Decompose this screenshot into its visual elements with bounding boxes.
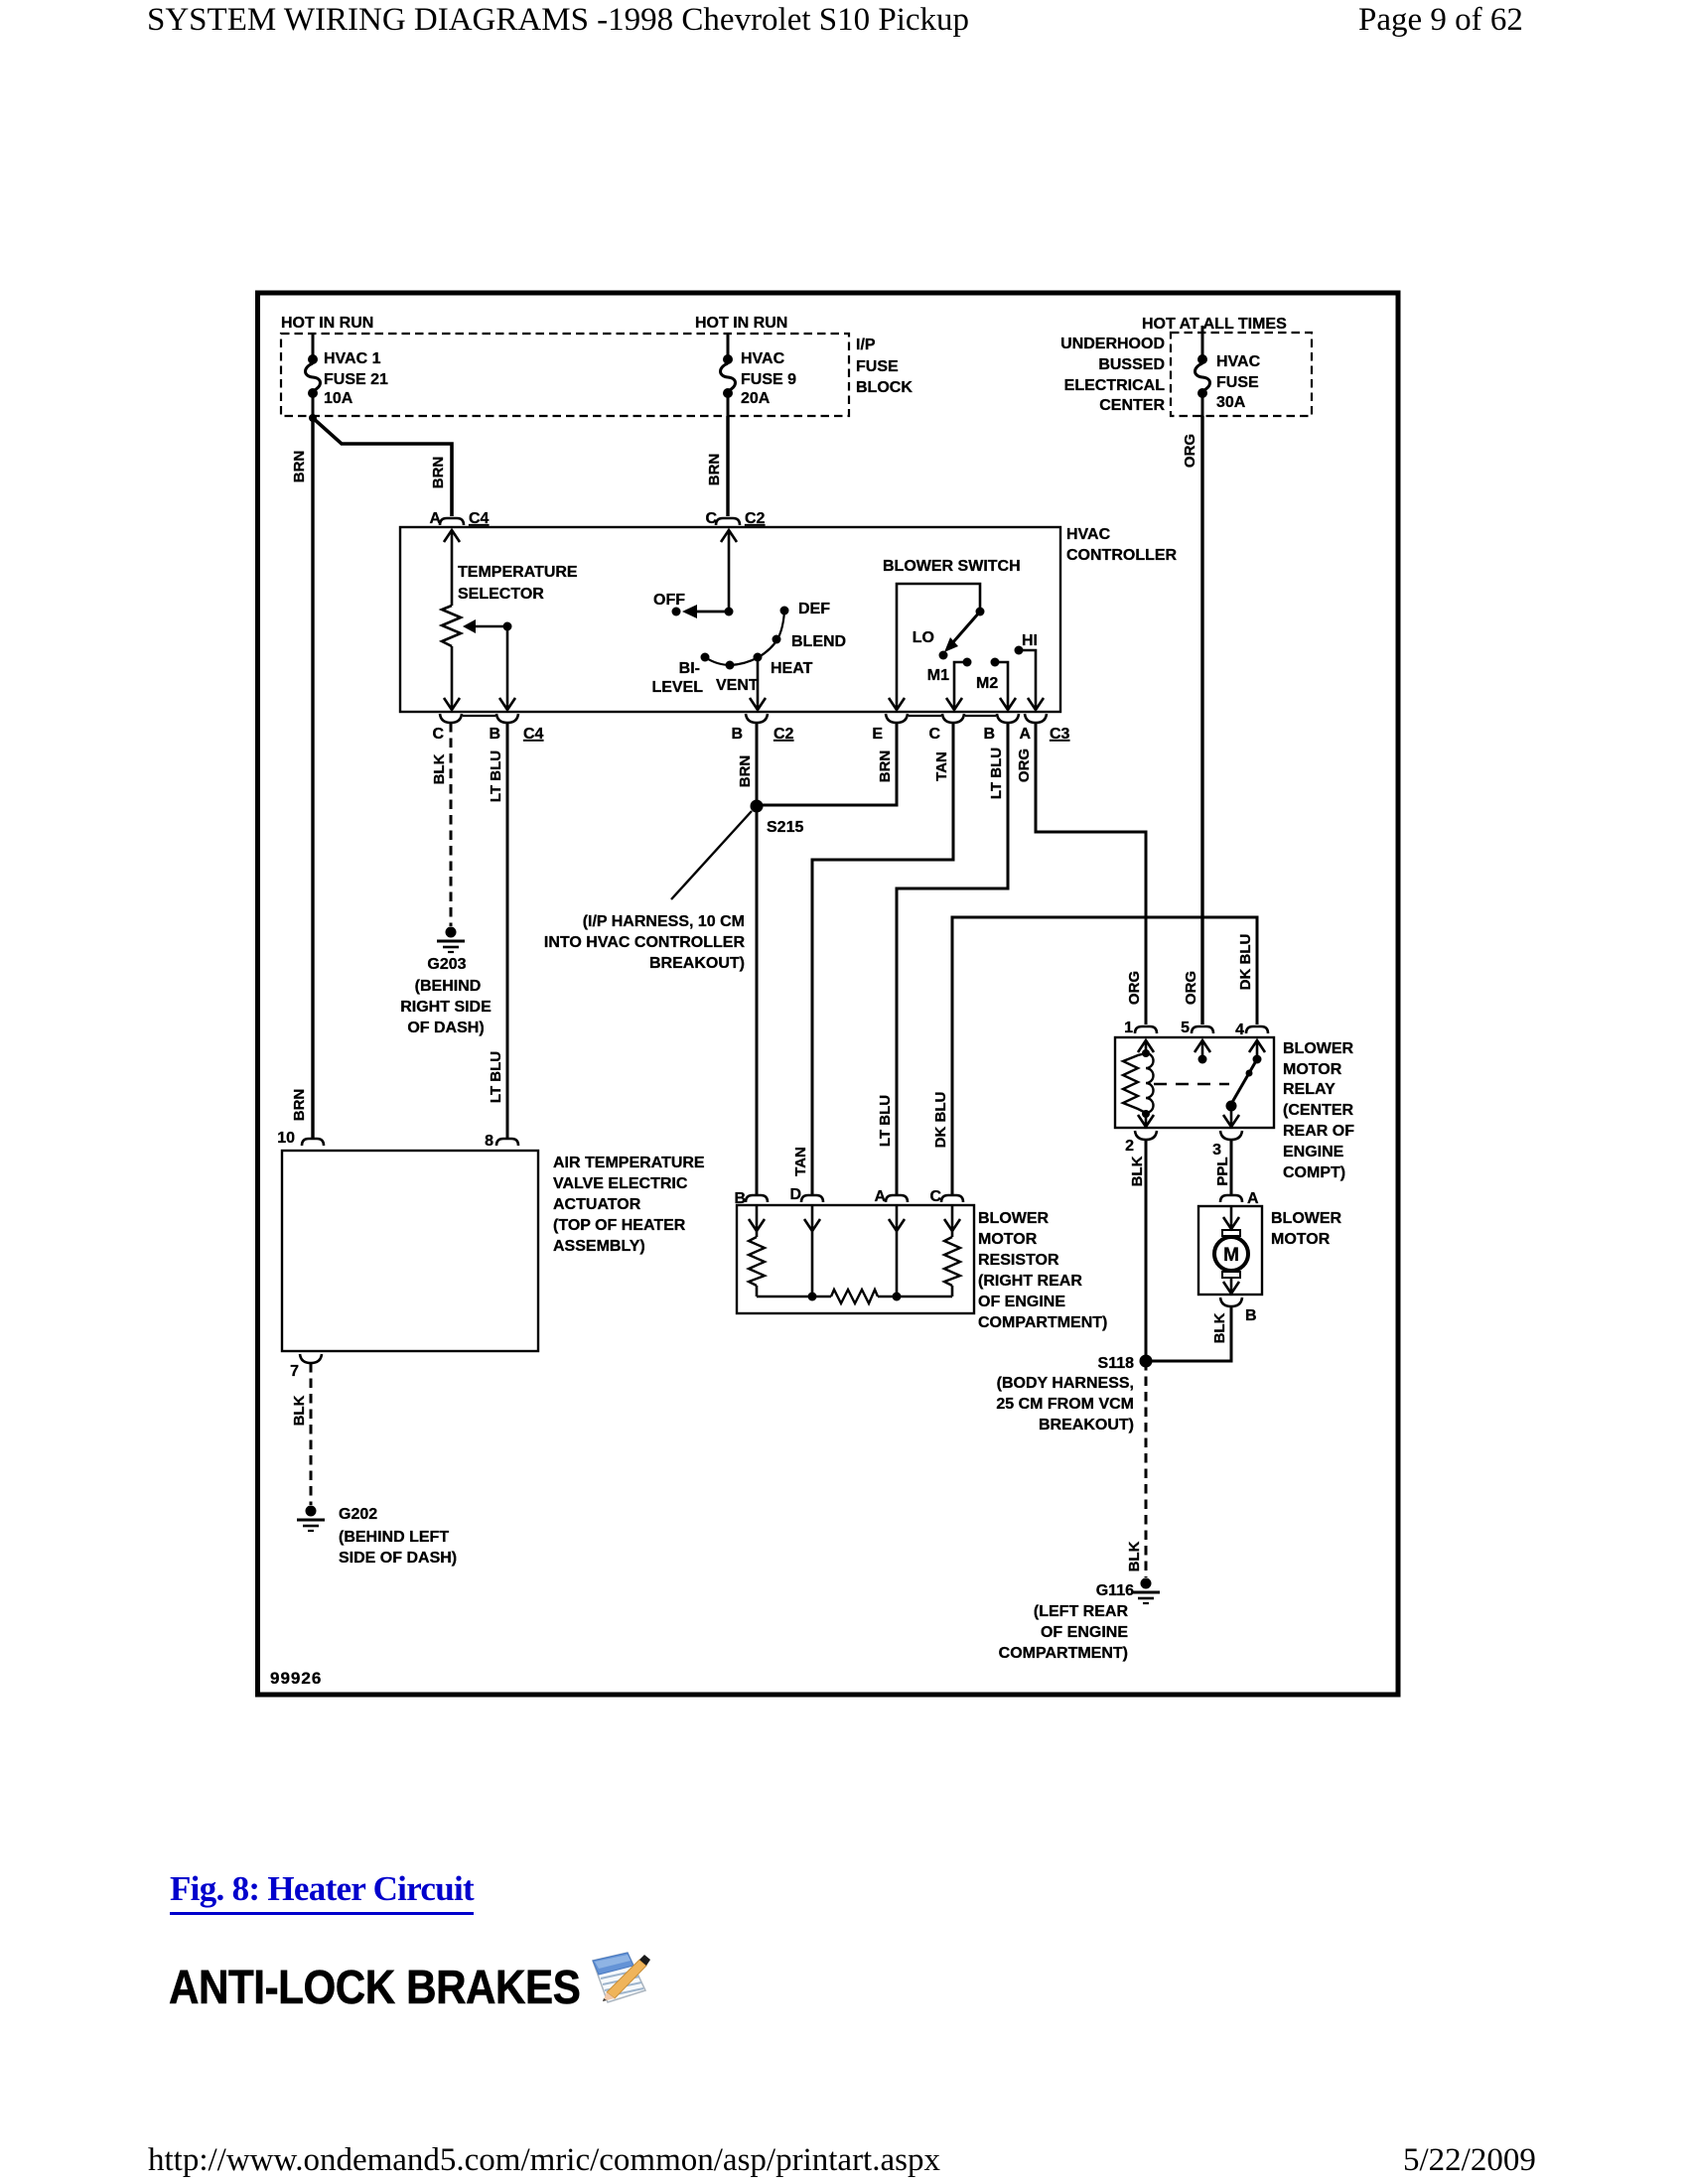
svg-text:FUSE: FUSE bbox=[856, 358, 899, 375]
label G202 (BEHIND LEFT SIDE OF DASH) bbox=[339, 1506, 457, 1567]
blower switch blade bbox=[944, 612, 980, 652]
label HOT IN RUN (left) bbox=[281, 315, 373, 332]
blower motor resistor box bbox=[737, 1205, 974, 1313]
svg-text:BRN: BRN bbox=[877, 751, 894, 783]
arrow out of box at B C3 bbox=[1000, 698, 1016, 710]
arrow into resistor at B bbox=[749, 1219, 765, 1231]
ground G202 bbox=[297, 1506, 325, 1532]
blower motor relay box bbox=[1115, 1037, 1274, 1128]
label DK BLU (relay) bbox=[1237, 934, 1254, 991]
label BLOWER MOTOR RESISTOR (RIGHT REAR OF ENGINE COMPARTMENT) bbox=[978, 1210, 1107, 1331]
label BLOWER SWITCH bbox=[883, 558, 1021, 575]
svg-text:HVAC: HVAC bbox=[1216, 353, 1261, 370]
figure caption link bbox=[170, 1869, 474, 1915]
svg-text:FUSE 9: FUSE 9 bbox=[741, 371, 796, 388]
label PPL (relay pin 3 wire) bbox=[1214, 1157, 1231, 1185]
connector pin 4 (relay) bbox=[1235, 1022, 1268, 1038]
svg-text:ELECTRICAL: ELECTRICAL bbox=[1064, 377, 1166, 394]
blower switch feed wire bbox=[897, 584, 980, 709]
wire TAN to resistor pin D bbox=[812, 723, 953, 1194]
wire PPL relay pin 3 to motor pin A bbox=[1230, 1140, 1233, 1194]
splice S118 bbox=[1098, 1355, 1153, 1373]
svg-text:5: 5 bbox=[1181, 1020, 1190, 1036]
label ORG (pin A C3 wire) bbox=[1016, 749, 1033, 782]
svg-text:LT BLU: LT BLU bbox=[988, 748, 1005, 799]
wire DK BLU relay pin 4 to resistor pin C bbox=[952, 917, 1257, 1194]
label BRN (left wire) bbox=[291, 451, 308, 483]
connector pin C C2 (controller top) bbox=[705, 510, 765, 527]
label G203 (BEHIND RIGHT SIDE OF DASH) bbox=[400, 956, 492, 1036]
label ORG (main at relay) bbox=[1183, 971, 1199, 1005]
label OFF bbox=[653, 592, 685, 609]
arrow out of relay at pin 3 bbox=[1223, 1115, 1239, 1127]
svg-text:ENGINE: ENGINE bbox=[1283, 1144, 1344, 1160]
svg-text:OF ENGINE: OF ENGINE bbox=[1041, 1624, 1128, 1641]
wire wiper to pin B bbox=[506, 626, 509, 709]
connector pin A C4 (controller top) bbox=[429, 510, 489, 527]
svg-text:(BEHIND: (BEHIND bbox=[415, 978, 482, 995]
connector tie E-C bbox=[909, 715, 941, 717]
contact HI bbox=[1015, 632, 1039, 709]
wire ORG to relay pin 1 bbox=[1036, 723, 1146, 1024]
svg-text:ORG: ORG bbox=[1016, 749, 1033, 782]
label fuse F9 bbox=[741, 350, 796, 407]
svg-text:C3: C3 bbox=[1050, 726, 1070, 743]
label HVAC CONTROLLER bbox=[1066, 526, 1178, 564]
svg-text:DK BLU: DK BLU bbox=[932, 1092, 949, 1149]
mode contact BI-LEVEL bbox=[651, 653, 709, 697]
arrow into relay at pin 1 bbox=[1138, 1040, 1154, 1052]
svg-text:C4: C4 bbox=[523, 726, 544, 743]
wire LT BLU to actuator pin 8 bbox=[506, 723, 509, 1138]
fuse HVAC 30A bbox=[1196, 326, 1210, 416]
svg-text:G116: G116 bbox=[1096, 1582, 1134, 1599]
svg-text:BLOCK: BLOCK bbox=[856, 379, 913, 396]
svg-text:BLOWER: BLOWER bbox=[1283, 1040, 1354, 1057]
svg-text:(CENTER: (CENTER bbox=[1283, 1102, 1354, 1119]
resistor bus wire bbox=[757, 1296, 952, 1298]
relay coil (parallel zigzag and loops) bbox=[1123, 1040, 1154, 1126]
svg-text:BRN: BRN bbox=[291, 451, 308, 483]
svg-text:7: 7 bbox=[290, 1363, 299, 1380]
svg-text:10: 10 bbox=[277, 1130, 295, 1147]
svg-text:2: 2 bbox=[1125, 1138, 1134, 1155]
arrow out of box at C bbox=[444, 698, 460, 710]
relay contact pin 4 bbox=[1253, 1040, 1262, 1064]
pot wiper arrow bbox=[463, 619, 512, 633]
svg-text:B: B bbox=[983, 726, 995, 743]
diagram number 99926 bbox=[270, 1669, 322, 1688]
wire HEAT to pin B C2 bbox=[757, 657, 760, 709]
svg-text:C: C bbox=[929, 1188, 941, 1205]
arrow out of box at E bbox=[889, 698, 905, 710]
svg-text:AIR TEMPERATURE: AIR TEMPERATURE bbox=[553, 1155, 705, 1171]
svg-text:OFF: OFF bbox=[653, 592, 685, 609]
arrow out of box at B C2 bbox=[750, 698, 766, 710]
label TAN (pin C C3 wire) bbox=[933, 751, 950, 781]
diagram frame bbox=[258, 293, 1399, 1695]
mode contact DEF bbox=[780, 601, 831, 617]
connector pin B C2 (controller bottom) bbox=[731, 714, 793, 743]
svg-text:BUSSED: BUSSED bbox=[1098, 356, 1165, 373]
svg-text:B: B bbox=[1245, 1307, 1257, 1324]
svg-text:30A: 30A bbox=[1216, 394, 1246, 411]
resistor element R-mid (horizontal) bbox=[831, 1290, 878, 1303]
label DK BLU (resistor) bbox=[932, 1092, 949, 1149]
svg-text:BRN: BRN bbox=[291, 1089, 308, 1122]
arrow into box at A bbox=[444, 530, 460, 542]
relay switch blade bbox=[1226, 1059, 1258, 1126]
connector tie C-B bbox=[965, 715, 996, 717]
svg-text:DK BLU: DK BLU bbox=[1237, 934, 1254, 991]
svg-text:ASSEMBLY): ASSEMBLY) bbox=[553, 1238, 645, 1255]
HVAC controller box bbox=[400, 527, 1060, 712]
connector pin A (resistor) bbox=[874, 1188, 908, 1205]
svg-text:ORG: ORG bbox=[1126, 971, 1143, 1005]
label HOT IN RUN (center) bbox=[695, 315, 787, 332]
svg-text:ORG: ORG bbox=[1182, 434, 1198, 468]
label UNDERHOOD BUSSED ELECTRICAL CENTER bbox=[1060, 336, 1165, 414]
label BLK (ground wire) bbox=[1126, 1541, 1143, 1571]
svg-text:S215: S215 bbox=[767, 819, 803, 836]
arrow into resistor at A bbox=[889, 1219, 905, 1231]
fuse F9 (HVAC, 20A) bbox=[721, 335, 736, 416]
label BODY HARNESS note bbox=[996, 1375, 1134, 1433]
wire ORG main to relay pin 5 bbox=[1200, 416, 1203, 1024]
svg-text:COMPT): COMPT) bbox=[1283, 1164, 1345, 1181]
contact M1 bbox=[927, 658, 972, 710]
wire BLK dashed S118 to G116 bbox=[1145, 1361, 1148, 1577]
svg-text:B: B bbox=[489, 726, 500, 743]
air temperature valve electric actuator box bbox=[282, 1151, 538, 1351]
wire A to potentiometer bbox=[451, 530, 454, 606]
svg-text:BLK: BLK bbox=[1129, 1156, 1146, 1186]
svg-text:PPL: PPL bbox=[1214, 1157, 1231, 1185]
svg-text:BLK: BLK bbox=[291, 1395, 308, 1426]
connector pin B (resistor) bbox=[734, 1190, 768, 1207]
svg-text:BLOWER SWITCH: BLOWER SWITCH bbox=[883, 558, 1021, 575]
svg-text:25 CM FROM VCM: 25 CM FROM VCM bbox=[996, 1396, 1134, 1413]
svg-text:E: E bbox=[872, 726, 883, 743]
label BRN (pin B C2 wire) bbox=[737, 755, 754, 788]
wire A to bus bbox=[893, 1205, 902, 1301]
svg-text:COMPARTMENT): COMPARTMENT) bbox=[999, 1645, 1128, 1662]
connector tie C4 bbox=[463, 715, 495, 717]
ground G203 bbox=[437, 927, 465, 953]
label BLK (relay pin 2 wire) bbox=[1129, 1156, 1146, 1186]
fuse F21 (HVAC 1, 10A) bbox=[306, 335, 321, 418]
connector pin C C4 (controller bottom) bbox=[432, 714, 462, 743]
connector pin 3 (relay bottom) bbox=[1212, 1131, 1242, 1159]
relay actuation dashed line bbox=[1154, 1083, 1229, 1086]
svg-text:(TOP OF HEATER: (TOP OF HEATER bbox=[553, 1217, 686, 1234]
svg-text:LEVEL: LEVEL bbox=[651, 679, 703, 696]
label BLK (pin C wire) bbox=[431, 753, 448, 784]
svg-text:B: B bbox=[731, 726, 743, 743]
potentiometer (temperature selector) bbox=[442, 606, 461, 646]
svg-text:ACTUATOR: ACTUATOR bbox=[553, 1196, 641, 1213]
label G116 (LEFT REAR OF ENGINE COMPARTMENT) bbox=[999, 1582, 1134, 1662]
svg-text:A: A bbox=[1019, 726, 1031, 743]
arrow into relay at pin 4 bbox=[1249, 1040, 1265, 1052]
arrow into resistor at C bbox=[944, 1219, 960, 1231]
svg-text:HVAC: HVAC bbox=[1066, 526, 1111, 543]
svg-text:A: A bbox=[874, 1188, 886, 1205]
mode switch pivot bbox=[725, 608, 734, 616]
label fuse F21 bbox=[324, 350, 388, 407]
I/P fuse block dashed box bbox=[281, 334, 849, 416]
blower motor symbol bbox=[1214, 1206, 1248, 1294]
label BRN (pin E wire) bbox=[877, 751, 894, 783]
wire D to bus bbox=[808, 1205, 817, 1301]
svg-text:HEAT: HEAT bbox=[771, 660, 813, 677]
svg-text:HOT AT ALL TIMES: HOT AT ALL TIMES bbox=[1142, 316, 1287, 333]
label BRN (branch wire) bbox=[430, 457, 447, 489]
connector pin 5 (relay) bbox=[1181, 1020, 1213, 1036]
svg-text:FUSE: FUSE bbox=[1216, 374, 1259, 391]
header left bbox=[147, 2, 969, 39]
label I/P FUSE BLOCK bbox=[856, 337, 913, 396]
svg-text:BLOWER: BLOWER bbox=[978, 1210, 1050, 1227]
label BLOWER MOTOR RELAY (CENTER REAR OF ENGINE COMPT) bbox=[1283, 1040, 1354, 1181]
connector pin D (resistor) bbox=[789, 1186, 823, 1203]
label LT BLU (pin B C3 wire) bbox=[988, 748, 1005, 799]
svg-text:G202: G202 bbox=[339, 1506, 377, 1523]
arrow out of box at C C3 bbox=[946, 698, 962, 710]
svg-text:S118: S118 bbox=[1098, 1355, 1135, 1372]
label I/P HARNESS note bbox=[544, 913, 746, 972]
svg-text:G203: G203 bbox=[427, 956, 466, 973]
svg-text:BREAKOUT): BREAKOUT) bbox=[649, 955, 745, 972]
mode contact BLEND bbox=[773, 633, 847, 650]
svg-text:REAR OF: REAR OF bbox=[1283, 1123, 1354, 1140]
svg-text:MOTOR: MOTOR bbox=[1271, 1231, 1331, 1248]
svg-text:BLK: BLK bbox=[431, 753, 448, 784]
svg-text:BLOWER: BLOWER bbox=[1271, 1210, 1342, 1227]
connector pin 2 (relay bottom) bbox=[1125, 1131, 1157, 1155]
label fuse HVAC 30A bbox=[1216, 353, 1261, 411]
resistor element R-B bbox=[749, 1205, 765, 1297]
label BLK (pin 7 wire) bbox=[291, 1395, 308, 1426]
svg-text:HVAC: HVAC bbox=[741, 350, 785, 367]
svg-text:3: 3 bbox=[1212, 1142, 1221, 1159]
label LT BLU (lower) bbox=[488, 1051, 504, 1103]
label BLK (motor pin B wire) bbox=[1211, 1312, 1228, 1343]
underhood bussed electrical center dashed box bbox=[1171, 333, 1312, 416]
svg-text:M1: M1 bbox=[927, 667, 949, 684]
svg-text:OF ENGINE: OF ENGINE bbox=[978, 1294, 1065, 1310]
label BRN (C2 feed wire) bbox=[706, 454, 723, 486]
svg-text:VALVE ELECTRIC: VALVE ELECTRIC bbox=[553, 1175, 688, 1192]
mode switch blade to OFF bbox=[672, 605, 730, 618]
svg-text:RIGHT SIDE: RIGHT SIDE bbox=[400, 999, 492, 1016]
svg-text:HOT IN RUN: HOT IN RUN bbox=[281, 315, 373, 332]
svg-text:M2: M2 bbox=[976, 675, 998, 692]
svg-text:LT BLU: LT BLU bbox=[488, 1051, 504, 1103]
svg-text:LO: LO bbox=[913, 629, 934, 646]
label LT BLU (pin B wire) bbox=[488, 751, 504, 802]
arrow into relay at pin 5 bbox=[1195, 1040, 1210, 1052]
svg-text:VENT: VENT bbox=[716, 677, 759, 694]
svg-text:C: C bbox=[928, 726, 940, 743]
svg-text:CENTER: CENTER bbox=[1099, 397, 1165, 414]
svg-text:MOTOR: MOTOR bbox=[978, 1231, 1038, 1248]
svg-text:99926: 99926 bbox=[270, 1669, 322, 1688]
label ORG (relay pin 1) bbox=[1126, 971, 1143, 1005]
connector pin B C3 (controller bottom) bbox=[983, 714, 1019, 743]
svg-text:C4: C4 bbox=[469, 510, 490, 527]
connector pin C C3 (controller bottom) bbox=[928, 714, 964, 743]
wire BLK dashed to G203 bbox=[450, 723, 453, 926]
svg-text:LT BLU: LT BLU bbox=[877, 1095, 894, 1147]
wire C to mode switch pivot bbox=[728, 530, 731, 612]
blower motor box bbox=[1198, 1206, 1262, 1295]
svg-text:C2: C2 bbox=[745, 510, 766, 527]
connector pin A (blower motor) bbox=[1220, 1190, 1259, 1207]
svg-text:1: 1 bbox=[1124, 1020, 1133, 1036]
svg-text:D: D bbox=[789, 1186, 801, 1203]
svg-text:(I/P HARNESS, 10 CM: (I/P HARNESS, 10 CM bbox=[583, 913, 745, 930]
svg-text:TEMPERATURE: TEMPERATURE bbox=[458, 564, 578, 581]
svg-text:BREAKOUT): BREAKOUT) bbox=[1039, 1417, 1134, 1433]
footer right bbox=[1403, 2142, 1536, 2179]
svg-text:HVAC 1: HVAC 1 bbox=[324, 350, 381, 367]
svg-text:UNDERHOOD: UNDERHOOD bbox=[1060, 336, 1165, 352]
svg-text:OF DASH): OF DASH) bbox=[407, 1020, 484, 1036]
notepad icon bbox=[588, 1949, 659, 2006]
svg-text:BRN: BRN bbox=[706, 454, 723, 486]
label LT BLU (lower resistor) bbox=[877, 1095, 894, 1147]
svg-text:BRN: BRN bbox=[737, 755, 754, 788]
connector pin 7 (actuator bottom) bbox=[290, 1354, 322, 1380]
arrow into resistor at D bbox=[804, 1219, 820, 1231]
wire BRN branch to connector A C4 bbox=[313, 418, 452, 516]
svg-text:BRN: BRN bbox=[430, 457, 447, 489]
arrow out of box at B bbox=[499, 698, 515, 710]
blower switch pivot bbox=[976, 608, 985, 616]
label TEMPERATURE SELECTOR bbox=[458, 564, 578, 603]
label BLOWER MOTOR bbox=[1271, 1210, 1342, 1248]
mode contact arc bbox=[705, 611, 784, 665]
wire BRN from F21 down left side bbox=[311, 416, 314, 1139]
connector pin E C3 (controller bottom) bbox=[872, 714, 908, 743]
label HOT AT ALL TIMES bbox=[1142, 316, 1287, 333]
label BRN (left wire lower) bbox=[291, 1089, 308, 1122]
svg-text:TAN: TAN bbox=[933, 751, 950, 781]
svg-text:MOTOR: MOTOR bbox=[1283, 1061, 1342, 1078]
connector pin 8 (actuator) bbox=[485, 1133, 518, 1150]
header right bbox=[1358, 2, 1523, 39]
svg-text:(BEHIND LEFT: (BEHIND LEFT bbox=[339, 1529, 449, 1546]
svg-text:ORG: ORG bbox=[1183, 971, 1199, 1005]
svg-text:CONTROLLER: CONTROLLER bbox=[1066, 547, 1178, 564]
relay common contact pin 5 bbox=[1198, 1040, 1207, 1064]
svg-text:(BODY HARNESS,: (BODY HARNESS, bbox=[997, 1375, 1134, 1392]
svg-text:HOT IN RUN: HOT IN RUN bbox=[695, 315, 787, 332]
svg-text:TAN: TAN bbox=[792, 1147, 809, 1176]
splice S215 bbox=[751, 800, 804, 837]
label ORG (main top) bbox=[1182, 434, 1198, 468]
svg-text:A: A bbox=[1247, 1190, 1259, 1207]
wire BLK dashed to G202 bbox=[310, 1363, 313, 1505]
svg-text:(RIGHT REAR: (RIGHT REAR bbox=[978, 1273, 1082, 1290]
contact LO bbox=[913, 629, 948, 660]
svg-text:DEF: DEF bbox=[798, 601, 830, 617]
label AIR TEMPERATURE VALVE ELECTRIC ACTUATOR bbox=[553, 1155, 705, 1255]
wire BLK relay pin 2 to S118 bbox=[1145, 1140, 1148, 1361]
contact M2 bbox=[976, 658, 1008, 710]
svg-text:BLEND: BLEND bbox=[791, 633, 846, 650]
svg-text:BLK: BLK bbox=[1211, 1312, 1228, 1343]
wire BRN E C3 down to splice bbox=[763, 723, 897, 805]
svg-text:INTO HVAC CONTROLLER: INTO HVAC CONTROLLER bbox=[544, 934, 746, 951]
arrow into box at C (mode feed) bbox=[721, 530, 737, 542]
section heading bbox=[169, 1961, 580, 2015]
connector pin C (resistor) bbox=[929, 1188, 963, 1205]
svg-text:COMPARTMENT): COMPARTMENT) bbox=[978, 1314, 1107, 1331]
svg-text:8: 8 bbox=[485, 1133, 493, 1150]
wire BRN from F9 to connector C C2 bbox=[726, 416, 729, 516]
connector pin B (blower motor bottom) bbox=[1220, 1297, 1257, 1324]
svg-text:10A: 10A bbox=[324, 390, 353, 407]
svg-text:FUSE 21: FUSE 21 bbox=[324, 371, 388, 388]
label TAN (lower) bbox=[792, 1147, 809, 1176]
connector pin B C4 (controller bottom) bbox=[489, 714, 543, 743]
resistor element R-C bbox=[944, 1205, 960, 1297]
svg-text:BLK: BLK bbox=[1126, 1541, 1143, 1571]
svg-text:SIDE OF DASH): SIDE OF DASH) bbox=[339, 1550, 457, 1567]
connector pin A C3 (controller bottom) bbox=[1019, 714, 1069, 743]
wire BRN C2-B to S215 to resistor pin B bbox=[756, 723, 759, 1194]
svg-text:BI-: BI- bbox=[679, 660, 700, 677]
connector pin 1 (relay) bbox=[1124, 1020, 1157, 1036]
svg-text:HI: HI bbox=[1022, 632, 1038, 649]
svg-text:C: C bbox=[432, 726, 444, 743]
arrow out of relay at pin 2 bbox=[1138, 1115, 1154, 1127]
connector pin 10 (actuator) bbox=[277, 1130, 324, 1147]
svg-text:C2: C2 bbox=[774, 726, 794, 743]
mode contact VENT bbox=[716, 661, 759, 695]
svg-text:I/P: I/P bbox=[856, 337, 876, 353]
ground G116 bbox=[1132, 1578, 1160, 1604]
svg-text:(LEFT REAR: (LEFT REAR bbox=[1034, 1603, 1129, 1620]
svg-text:RELAY: RELAY bbox=[1283, 1081, 1336, 1098]
svg-text:M: M bbox=[1223, 1245, 1239, 1266]
wire pot to pin C bbox=[451, 646, 454, 709]
arrow out of box at A C3 bbox=[1028, 698, 1044, 710]
wire BLK motor pin B to S118 bbox=[1152, 1306, 1231, 1361]
S215 leader line bbox=[671, 811, 752, 899]
svg-text:RESISTOR: RESISTOR bbox=[978, 1252, 1059, 1269]
svg-text:LT BLU: LT BLU bbox=[488, 751, 504, 802]
svg-text:20A: 20A bbox=[741, 390, 771, 407]
mode contact HEAT bbox=[754, 653, 813, 678]
footer left bbox=[148, 2142, 940, 2179]
svg-text:SELECTOR: SELECTOR bbox=[458, 586, 544, 603]
junction at fuse block bottom bbox=[309, 414, 317, 422]
wire LT BLU to resistor pin A bbox=[897, 723, 1008, 1194]
svg-text:4: 4 bbox=[1235, 1022, 1244, 1038]
